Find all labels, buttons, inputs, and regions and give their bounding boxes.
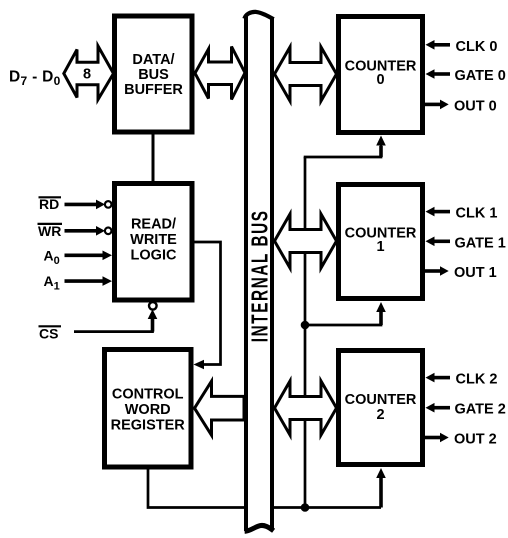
wire: branch to COUNTER 1 load [305,312,381,325]
block: DATA/BUS BUFFER [115,16,193,132]
arrowhead into CONTROL WORD REGISTER right edge [194,360,205,370]
svg-text:GATE 2: GATE 2 [455,402,506,418]
block: COUNTER 1 [339,185,423,299]
svg-text:REGISTER: REGISTER [111,418,186,434]
svg-text:GATE 0: GATE 0 [455,68,506,84]
hollow bus arrow: DATA/BUS BUFFER to internal bus [195,47,245,100]
block: COUNTER 0 [339,17,423,133]
hollow arrow: internal bus to CONTROL WORD REGISTER [195,381,245,435]
svg-text:OUT 1: OUT 1 [454,265,497,281]
internal bus top cap [244,12,273,19]
junction dot at (305,325) [301,321,310,330]
svg-text:DATA/: DATA/ [132,52,174,68]
svg-text:BUS: BUS [138,67,169,83]
internal bus right border [270,17,274,530]
svg-text:WRITE: WRITE [130,232,177,248]
signal CS wire [74,315,153,332]
signal CLK 0 [434,43,450,47]
svg-text:2: 2 [376,407,384,423]
wire: branch to COUNTER 2 load [379,477,383,508]
arrowhead up into CS bubble [148,309,158,319]
block: COUNTER 2 [339,351,423,465]
internal bus body [244,14,274,530]
bubble WR [105,228,112,235]
signal CLK 1 [434,210,450,214]
svg-text:READ/: READ/ [131,217,176,233]
svg-text:OUT 0: OUT 0 [454,98,497,114]
svg-text:1: 1 [376,239,384,255]
svg-text:BUFFER: BUFFER [124,82,183,98]
internal bus left border [244,17,248,532]
svg-text:D7 - D0: D7 - D0 [9,68,61,88]
arrowhead into COUNTER 0 bottom [376,136,386,146]
wire: branch to COUNTER 0 load [304,144,381,157]
wire: READ/WRITE LOGIC to CONTROL WORD REGISTER [194,242,221,365]
arrowhead into COUNTER 1 bottom [376,302,386,312]
svg-text:CS: CS [39,326,58,342]
signal GATE 1 [434,240,450,244]
svg-text:GATE 1: GATE 1 [455,235,506,251]
wire: vertical distribution line x=305 [304,157,307,508]
wire: DATA/BUS BUFFER to READ/WRITE LOGIC [152,134,155,182]
svg-text:8: 8 [83,67,91,83]
bubble CS [149,302,157,310]
hollow bus arrow: internal bus to COUNTER 1 [275,214,337,268]
wire: CONTROL WORD REGISTER bottom to bottom bus line [148,469,381,508]
hollow bus arrow: internal bus to COUNTER 0 [275,47,337,101]
svg-text:RD: RD [39,196,59,212]
signal OUT 0 [425,103,441,107]
signal OUT 2 [425,436,441,440]
block: CONTROL WORD REGISTER [105,350,192,468]
block: READ/WRITE LOGIC [115,184,193,301]
svg-text:CONTROL: CONTROL [112,386,184,402]
svg-text:OUT 2: OUT 2 [454,432,497,448]
svg-text:WORD: WORD [125,402,171,418]
svg-text:CLK 2: CLK 2 [456,372,498,388]
hollow bus arrow: D7-D0 to DATA/BUS BUFFER (with 8) [64,46,114,100]
internal bus bottom cap [245,525,274,531]
bubble RD [105,201,112,208]
arrowhead into COUNTER 2 bottom [376,468,386,478]
svg-text:CLK 1: CLK 1 [456,206,498,222]
signal GATE 0 [434,72,450,76]
signal CLK 2 [434,376,450,380]
svg-text:0: 0 [376,72,384,88]
hollow bus arrow: internal bus to COUNTER 2 [275,381,337,435]
svg-text:CLK 0: CLK 0 [456,39,498,55]
svg-text:INTERNAL BUS: INTERNAL BUS [247,209,273,342]
junction dot at (305,507.5) [301,503,310,512]
signal OUT 1 [425,269,441,273]
svg-text:WR: WR [38,223,61,239]
signal GATE 2 [434,406,450,410]
svg-text:COUNTER: COUNTER [345,392,417,408]
svg-text:LOGIC: LOGIC [131,248,177,264]
